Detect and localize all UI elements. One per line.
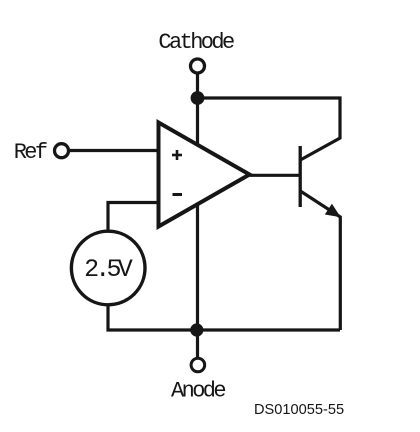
svg-text:DS010055-55: DS010055-55 [254,402,344,418]
svg-text:Ref: Ref [14,140,47,165]
svg-text:Anode: Anode [171,379,225,404]
svg-text:2.5V: 2.5V [84,255,133,284]
svg-text:Cathode: Cathode [158,30,234,55]
